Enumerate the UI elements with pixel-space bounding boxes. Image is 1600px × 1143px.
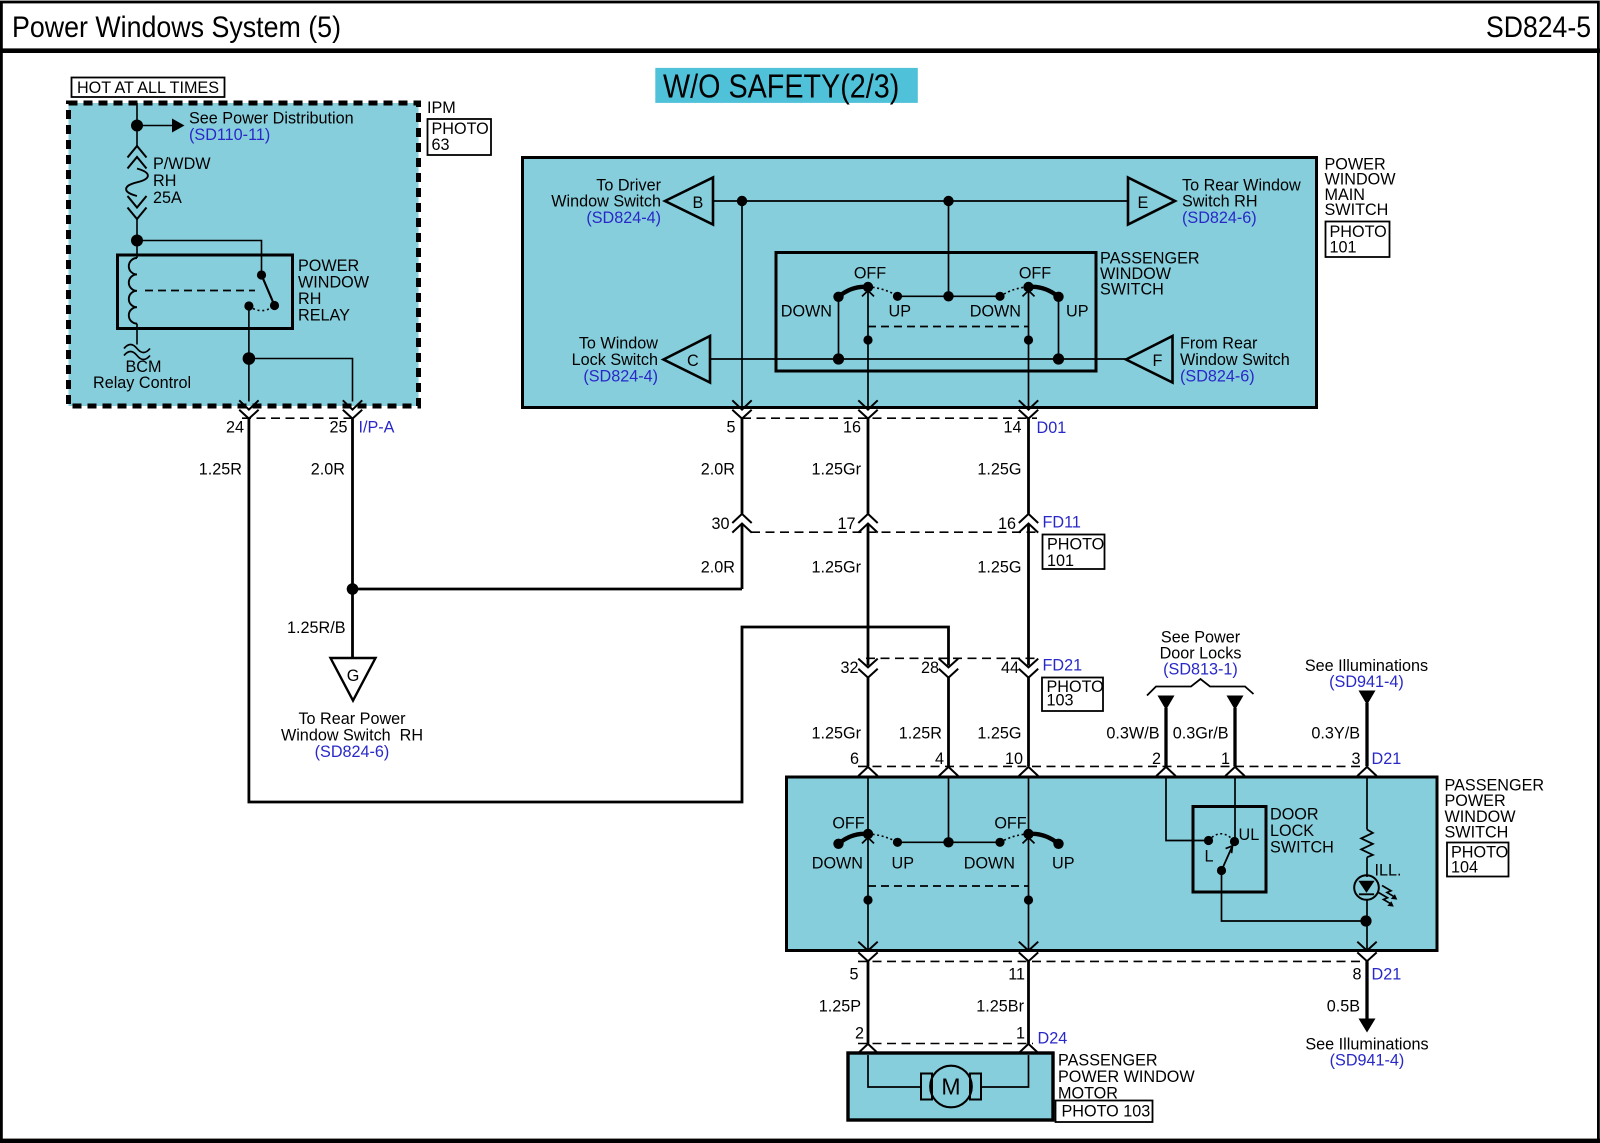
relay POWER WINDOW RH RELAY box (118, 255, 293, 329)
node on B-E wire (center col) (943, 196, 953, 206)
svg-text:DOWN: DOWN (970, 303, 1021, 321)
svg-text:From Rear: From Rear (1180, 335, 1258, 353)
arrow F from rear window switch (1126, 336, 1173, 383)
svg-text:OFF: OFF (832, 815, 864, 833)
wire col 948.5 to contact wire (948, 778, 950, 843)
connector D21 pin 8 (bottom) (1357, 942, 1376, 962)
svg-text:0.3Gr/B: 0.3Gr/B (1173, 725, 1229, 743)
svg-text:(SD824-6): (SD824-6) (1180, 367, 1255, 385)
svg-text:30: 30 (711, 515, 729, 533)
wire 1.25R/B to ground G (351, 589, 354, 657)
passenger power window motor box (848, 1053, 1053, 1120)
svg-text:1.25Gr: 1.25Gr (812, 461, 862, 479)
door lock switch box (1193, 807, 1266, 893)
svg-text:M: M (941, 1074, 960, 1100)
motor M (930, 1066, 972, 1108)
arrow from power door locks (pin2) (1158, 696, 1175, 711)
photo ref PHOTO 104 (1447, 843, 1509, 877)
fuse P/WDW RH 25A (128, 146, 147, 169)
wire col 1028.5 to pin 14 (1028, 291, 1030, 409)
LED light arrows (1382, 886, 1394, 897)
svg-text:POWER WINDOW: POWER WINDOW (1058, 1068, 1195, 1086)
svg-text:1.25Gr: 1.25Gr (812, 725, 862, 743)
svg-text:UP: UP (892, 855, 915, 873)
node on B-E wire (pin5 col) (737, 196, 747, 206)
wire 2.0R pin5 down (741, 419, 744, 514)
wire corner to right (248, 627, 949, 802)
svg-text:DOWN: DOWN (812, 855, 863, 873)
svg-text:ILL.: ILL. (1375, 862, 1402, 880)
node on C-F wire right (1053, 353, 1064, 364)
switch SW4 blade (1029, 834, 1059, 844)
svg-text:SWITCH: SWITCH (1325, 201, 1389, 219)
wire SW1 common down to C-F wire (838, 297, 840, 359)
svg-text:D24: D24 (1038, 1030, 1068, 1048)
svg-text:SWITCH: SWITCH (1270, 839, 1334, 857)
svg-text:16: 16 (998, 515, 1016, 533)
svg-text:2.0R: 2.0R (701, 559, 735, 577)
photo ref PHOTO 103 (motor) (1056, 1101, 1153, 1123)
wire center col down to switch (948, 201, 950, 296)
relay contact: fixed upper (257, 270, 266, 279)
svg-text:1.25G: 1.25G (977, 725, 1021, 743)
connector D21 pin 1 (1225, 767, 1244, 787)
svg-text:(SD110-11): (SD110-11) (189, 126, 270, 144)
passenger power window switch box (787, 777, 1438, 951)
svg-text:17: 17 (837, 515, 855, 533)
connector D01 pin 16 (858, 400, 877, 418)
svg-text:I/P-A: I/P-A (359, 419, 395, 437)
dotted between L and UL (1209, 834, 1235, 842)
svg-text:Switch RH: Switch RH (1182, 193, 1258, 211)
svg-text:28: 28 (921, 659, 939, 677)
connector I/P-A pin 24 (239, 400, 258, 418)
connector FD21 pin 28 (939, 659, 958, 678)
connector D01 dashed line (742, 417, 1037, 419)
wire fuse to relay (136, 219, 138, 241)
contact UL (1230, 837, 1239, 846)
mechanical linkage dashed (868, 885, 1029, 887)
connector D21 bottom dashed line (858, 960, 1361, 962)
svg-text:103: 103 (1047, 692, 1074, 710)
connector D01 pin 5 (732, 400, 751, 418)
switch SW3 blade (839, 834, 869, 844)
connector D21 pin 3 (1357, 767, 1376, 787)
arrow C to window lock switch (664, 336, 711, 383)
svg-text:DOOR: DOOR (1270, 806, 1319, 824)
node: fuse output junction (131, 235, 143, 247)
svg-text:Lock Switch: Lock Switch (572, 351, 658, 369)
wire 2.0R pin25 down (351, 419, 354, 589)
connector I/P-A dashed line (242, 417, 357, 419)
connector D24 pin 1 (1019, 1044, 1038, 1064)
connector D01 pin 14 (1019, 400, 1038, 418)
svg-text:(SD941-4): (SD941-4) (1330, 1052, 1405, 1070)
wire blade to ILL junction (1222, 871, 1367, 922)
node: power distribution junction (131, 120, 143, 132)
svg-text:L: L (1205, 848, 1214, 866)
svg-text:RH: RH (153, 172, 176, 190)
svg-text:(SD824-6): (SD824-6) (315, 743, 390, 761)
svg-text:(SD824-4): (SD824-4) (586, 209, 661, 227)
svg-text:1.25G: 1.25G (977, 461, 1021, 479)
svg-text:OFF: OFF (1019, 265, 1051, 283)
svg-text:(SD824-6): (SD824-6) (1182, 209, 1257, 227)
svg-text:DOWN: DOWN (964, 855, 1015, 873)
relay coil (129, 258, 137, 324)
resistor (ILL) (1361, 830, 1373, 858)
arrow from power door locks (pin1) (1227, 696, 1244, 711)
connector FD21 dashed line (866, 657, 1037, 659)
svg-text:F: F (1153, 352, 1163, 370)
svg-text:IPM: IPM (427, 99, 456, 117)
switch SW3 actuator arrow (862, 838, 874, 844)
motor internal wire left (868, 1055, 921, 1087)
photo ref PHOTO 101 (main switch) (1326, 222, 1390, 258)
switch SW4 dotted from contact (1000, 834, 1029, 842)
wire coil to BCM (136, 324, 138, 345)
connector D21 pin 5 (bottom) (858, 942, 877, 962)
diagram title band W/O SAFETY(2/3) (655, 68, 918, 103)
wire from B+ down (136, 103, 138, 147)
switch SW4 actuator arrow (1023, 838, 1035, 844)
wire 1.25G pin44 down (1027, 678, 1030, 767)
wire 1.25Gr pin32 down (867, 678, 870, 767)
svg-text:DOWN: DOWN (781, 303, 832, 321)
wire junction to pin25 branch (249, 359, 353, 402)
svg-text:1.25R/B: 1.25R/B (287, 619, 346, 637)
connector D21 top dashed line (858, 765, 1361, 767)
svg-text:5: 5 (849, 966, 858, 984)
node junction pin25/pin30 (347, 583, 359, 595)
svg-text:2.0R: 2.0R (311, 461, 345, 479)
svg-text:UP: UP (1052, 855, 1075, 873)
arrow B to driver window switch (665, 178, 713, 225)
wire junction to relay contact (137, 241, 262, 276)
node ILL junction (1360, 915, 1371, 926)
svg-text:10: 10 (1005, 750, 1023, 768)
relay contact: output (244, 301, 253, 310)
svg-text:1.25P: 1.25P (819, 998, 861, 1016)
wire col 868 to pin 16 (867, 291, 869, 409)
svg-text:G: G (347, 667, 360, 685)
svg-text:101: 101 (1047, 552, 1074, 570)
svg-text:UP: UP (889, 303, 912, 321)
photo ref PHOTO 103 (FD21) (1042, 678, 1103, 712)
arrow to illuminations (bottom) (1359, 1019, 1376, 1033)
switch SW3 dotted to UP contact (868, 834, 898, 842)
connector FD11 pin 17 (858, 514, 877, 533)
svg-text:OFF: OFF (854, 265, 886, 283)
svg-text:To Rear Power: To Rear Power (298, 710, 406, 728)
svg-text:POWER: POWER (298, 257, 359, 275)
svg-text:14: 14 (1003, 419, 1021, 437)
connector D24 dashed line (858, 1043, 1033, 1045)
connector I/P-A pin 25 (343, 400, 362, 418)
svg-text:RH: RH (298, 290, 321, 308)
wire 1.25P pin5 down (867, 961, 870, 1043)
connector FD21 pin 44 (1019, 659, 1038, 678)
svg-text:HOT AT ALL TIMES: HOT AT ALL TIMES (77, 79, 219, 97)
wire 1.25R pin24 down (247, 419, 250, 802)
svg-text:1.25G: 1.25G (977, 559, 1021, 577)
svg-text:LOCK: LOCK (1270, 822, 1314, 840)
svg-text:16: 16 (843, 419, 861, 437)
motor internal wire right (981, 1055, 1029, 1087)
svg-text:SD824-5: SD824-5 (1486, 11, 1591, 44)
switch SW1 actuator arrow (862, 291, 874, 297)
brace (1147, 679, 1254, 696)
connector D21 pin 6 (858, 767, 877, 787)
svg-text:WINDOW: WINDOW (298, 274, 370, 292)
wire col 742 down to pin 5 (741, 201, 743, 408)
connector D24 pin 2 (858, 1044, 877, 1064)
wire pin1 col to UL contact (1234, 778, 1236, 842)
svg-text:1: 1 (1221, 750, 1230, 768)
svg-text:UL: UL (1239, 826, 1260, 844)
wire resistor to LED (1366, 857, 1368, 877)
svg-text:0.3W/B: 0.3W/B (1106, 725, 1159, 743)
LED illumination (1354, 875, 1379, 900)
svg-text:3: 3 (1351, 750, 1360, 768)
relay blade (262, 275, 275, 306)
node col868 (863, 895, 872, 904)
svg-text:1: 1 (1016, 1025, 1025, 1043)
svg-text:Relay Control: Relay Control (93, 374, 191, 392)
svg-text:P/WDW: P/WDW (153, 155, 211, 173)
arrow from illuminations (pin3) (1359, 691, 1376, 706)
wire pin2 col to door lock switch (1166, 778, 1207, 841)
svg-text:11: 11 (1008, 966, 1025, 984)
connector FD11 dashed line (751, 531, 1037, 533)
svg-text:Window Switch: Window Switch (551, 193, 661, 211)
svg-text:101: 101 (1330, 239, 1357, 257)
contact L (1204, 836, 1213, 845)
switch SW1 blade (839, 287, 869, 297)
wire pin3 col to resistor (1366, 778, 1368, 830)
wire 1.25R pin28 down (947, 678, 950, 767)
switch SW1 dotted to UP contact (868, 287, 898, 296)
node: relay output junction (243, 352, 256, 365)
svg-text:Power Windows System (5): Power Windows System (5) (12, 11, 341, 44)
wire 0.5B pin8 down (1365, 961, 1368, 1019)
svg-text:B: B (693, 194, 704, 212)
svg-text:FD21: FD21 (1043, 657, 1083, 675)
svg-text:UP: UP (1066, 303, 1089, 321)
svg-text:1.25R: 1.25R (899, 725, 942, 743)
outer page frame bottom bar (0, 1139, 1600, 1143)
svg-text:PASSENGER: PASSENGER (1058, 1052, 1158, 1070)
svg-text:2: 2 (855, 1025, 864, 1043)
photo ref PHOTO 63 (428, 119, 492, 155)
arrow to See Power Distribution (137, 125, 172, 127)
svg-text:E: E (1138, 194, 1149, 212)
wire 2.0R pin30 down (741, 524, 744, 590)
wire SW2 common down to C-F wire (1058, 297, 1060, 359)
wire junction horizontal (353, 588, 743, 591)
svg-text:SWITCH: SWITCH (1100, 281, 1164, 299)
motor brush left (921, 1074, 932, 1100)
svg-text:Window Switch RH: Window Switch RH (281, 727, 423, 745)
svg-text:104: 104 (1451, 859, 1478, 877)
svg-text:6: 6 (850, 750, 859, 768)
svg-text:D01: D01 (1037, 419, 1067, 437)
HOT AT ALL TIMES label box (72, 78, 225, 98)
svg-text:32: 32 (840, 659, 858, 677)
svg-text:1.25R: 1.25R (199, 461, 242, 479)
wire B to E (713, 200, 1128, 202)
svg-text:PHOTO: PHOTO (1047, 536, 1104, 554)
wire col 1028.5 through box (1028, 778, 1030, 950)
passenger window switch inner box (776, 253, 1096, 372)
svg-text:5: 5 (726, 419, 735, 437)
svg-text:63: 63 (432, 136, 450, 154)
svg-text:4: 4 (935, 750, 944, 768)
ground symbol G (331, 658, 376, 701)
wire 1.25G pin14 down (1027, 419, 1030, 514)
svg-text:8: 8 (1352, 966, 1361, 984)
switch SW2 actuator arrow (1023, 291, 1035, 297)
svg-text:44: 44 (1001, 659, 1019, 677)
svg-text:C: C (687, 352, 699, 370)
wire junction down to coil (136, 241, 138, 259)
relay internal dashed link (145, 290, 255, 292)
connector D21 pin 2 (1156, 767, 1175, 787)
wire C to F (710, 358, 1126, 360)
svg-text:2.0R: 2.0R (701, 461, 735, 479)
wire 1.25Br pin11 down (1027, 961, 1030, 1043)
svg-text:2: 2 (1152, 750, 1161, 768)
wire 1.25Gr pin16 down (867, 419, 870, 514)
connector FD21 pin 32 (858, 659, 877, 678)
svg-text:25A: 25A (153, 189, 182, 207)
svg-text:To Window: To Window (579, 335, 658, 353)
wire 1.25G pin16 down (1027, 524, 1030, 666)
svg-text:1.25Gr: 1.25Gr (812, 559, 862, 577)
switch SW2 blade (1029, 287, 1059, 297)
svg-text:24: 24 (226, 419, 244, 437)
switch SW2 dotted from contact (1000, 287, 1029, 296)
connector D21 pin 4 (939, 767, 958, 787)
connector D21 pin 10 (1019, 767, 1038, 787)
svg-text:Window Switch: Window Switch (1180, 351, 1290, 369)
node on C-F wire left (833, 353, 844, 364)
BCM wire break symbol (124, 345, 150, 360)
svg-text:OFF: OFF (994, 815, 1026, 833)
power window main switch box (523, 158, 1317, 408)
svg-text:0.5B: 0.5B (1327, 998, 1360, 1016)
connector FD11 pin 16 (1019, 514, 1038, 533)
svg-text:D21: D21 (1372, 966, 1402, 984)
wire col 868 through box (867, 778, 869, 950)
door lock blade (1222, 846, 1233, 871)
header divider bar (0, 48, 1600, 53)
svg-text:FD11: FD11 (1043, 514, 1081, 532)
wire between UP/DOWN contacts (898, 295, 1001, 297)
mechanical linkage dashed (868, 326, 1029, 328)
svg-text:0.3Y/B: 0.3Y/B (1311, 725, 1360, 743)
connector FD11 pin 30 (732, 514, 751, 533)
arrow E to rear window switch RH (1128, 178, 1175, 225)
svg-text:RELAY: RELAY (298, 307, 350, 325)
svg-text:See Power Distribution: See Power Distribution (189, 110, 354, 128)
svg-text:25: 25 (329, 419, 347, 437)
wire junction to pin24 (248, 359, 250, 402)
svg-text:PHOTO 103: PHOTO 103 (1062, 1103, 1151, 1121)
wire between contacts (898, 841, 1001, 843)
svg-text:(SD941-4): (SD941-4) (1329, 673, 1404, 691)
wire relay output down (248, 306, 250, 359)
node col1028.5 (1024, 895, 1033, 904)
svg-text:SWITCH: SWITCH (1445, 824, 1509, 842)
photo ref PHOTO 101 (FD11) (1043, 535, 1105, 570)
svg-text:1.25Br: 1.25Br (976, 998, 1024, 1016)
wire 1.25Gr pin17 down (867, 524, 870, 666)
svg-text:(SD824-4): (SD824-4) (583, 367, 658, 385)
motor brush right (970, 1074, 981, 1100)
connector D21 pin 11 (bottom) (1019, 942, 1038, 962)
svg-text:W/O SAFETY(2/3): W/O SAFETY(2/3) (663, 68, 899, 105)
wire LED to junction (1366, 899, 1368, 949)
svg-text:(SD813-1): (SD813-1) (1163, 661, 1238, 679)
IPM module dashed box (69, 103, 419, 406)
svg-text:D21: D21 (1372, 750, 1402, 768)
